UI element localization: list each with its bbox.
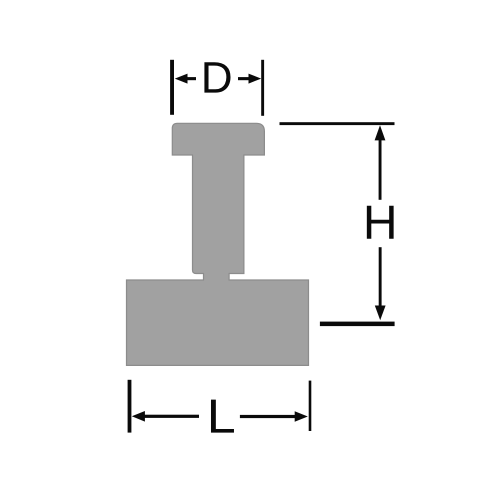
label H — [367, 206, 394, 239]
dimension H top reference line — [280, 122, 395, 125]
dimension D arrow left — [175, 74, 196, 84]
dimension H arrow up — [375, 125, 386, 200]
dimension L extension line right — [309, 381, 312, 431]
dimension D arrow right — [238, 74, 261, 84]
dimension D extension line right — [261, 60, 264, 116]
label L — [211, 400, 234, 433]
dimension D extension line left — [170, 60, 174, 115]
dimension L extension line left — [128, 380, 132, 433]
dimension H bottom reference line — [320, 322, 395, 327]
label D — [204, 62, 230, 92]
dimension L arrow left — [132, 411, 199, 422]
dimension L arrow right — [240, 411, 308, 422]
dimension H arrow down — [375, 247, 386, 320]
part body (gray T-bolt screw with magnet base block, single silhouette) — [127, 123, 309, 365]
